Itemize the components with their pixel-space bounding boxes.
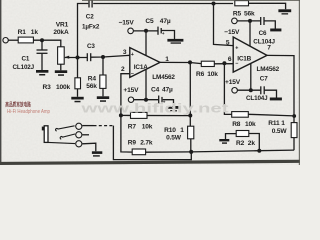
- svg-text:0.5W: 0.5W: [272, 128, 288, 135]
- junction C5: [144, 29, 148, 33]
- svg-text:C5: C5: [145, 18, 154, 25]
- svg-text:C6: C6: [259, 30, 267, 37]
- wire jack contact corner down: [113, 126, 191, 160]
- junction C7: [249, 88, 253, 92]
- ground under VR1: [55, 70, 67, 76]
- svg-text:VR1: VR1: [56, 21, 69, 28]
- junction rail/pin5: [212, 2, 216, 6]
- potentiometer VR1: [58, 47, 65, 64]
- svg-text:−15V: −15V: [119, 19, 135, 26]
- resistor R7: [131, 112, 148, 118]
- svg-text:2k: 2k: [248, 140, 256, 147]
- ground C4: [167, 106, 181, 112]
- capacitor C4 polarized: [159, 96, 162, 104]
- wire C7 to ground: [265, 90, 277, 97]
- junction C4: [144, 98, 148, 102]
- svg-text:R10: R10: [164, 127, 176, 134]
- svg-text:2: 2: [121, 66, 125, 73]
- jack contact circle 2: [76, 132, 82, 138]
- capacitor C2: [89, 0, 92, 8]
- capacitor C7: [261, 86, 264, 94]
- wire node A down to R3: [77, 58, 79, 78]
- wire IC1A V-: [145, 31, 147, 56]
- svg-text:C1: C1: [22, 56, 30, 63]
- svg-text:0.5W: 0.5W: [166, 134, 182, 141]
- svg-text:LM4562: LM4562: [257, 66, 280, 73]
- jack sleeve lead: [48, 142, 75, 143]
- wire R4 to ground: [102, 88, 104, 96]
- wire IC1B V-: [249, 21, 251, 46]
- jack contact leaf 1: [56, 126, 75, 131]
- wire IC1B output down right edge: [267, 55, 294, 122]
- wire VR1 wiper to node A: [65, 57, 87, 59]
- svg-text:−15V: −15V: [224, 29, 240, 36]
- junction pin2 bus: [119, 113, 123, 117]
- wire IC1A V+: [145, 69, 147, 99]
- headphone jack plug body: [42, 126, 48, 143]
- wire R7 bus: [121, 114, 191, 116]
- wire R10 bottom: [190, 139, 192, 152]
- svg-text:R6: R6: [196, 71, 205, 78]
- resistor R3: [75, 78, 81, 89]
- ground under R3: [71, 97, 83, 103]
- wire node X down to R4: [102, 57, 104, 75]
- svg-text:47µ: 47µ: [162, 87, 173, 94]
- -15V terminal A: [128, 28, 134, 34]
- scan border left: [0, 0, 1, 165]
- scan border right: [299, 0, 300, 165]
- junction R1/C1: [40, 38, 44, 42]
- wire rail down to IC1B pin 5: [214, 4, 234, 46]
- resistor R10: [188, 126, 194, 139]
- junction C6: [248, 19, 252, 23]
- svg-text:R1: R1: [18, 29, 27, 36]
- wire R2 right end down to bus: [249, 134, 259, 151]
- resistor R6: [201, 61, 214, 66]
- capacitor C3: [87, 53, 90, 61]
- ground C5: [167, 39, 183, 44]
- -15V terminal B: [232, 18, 238, 24]
- svg-text:56k: 56k: [86, 83, 97, 90]
- scan border top: [82, 0, 300, 1]
- op-amp IC1A: [130, 48, 160, 78]
- junction output B: [292, 114, 296, 118]
- wire output drop to R10: [189, 63, 191, 127]
- capacitor C1: [37, 50, 48, 53]
- ground C7: [270, 98, 282, 101]
- svg-text:R2: R2: [236, 140, 245, 147]
- svg-text:R5: R5: [233, 11, 242, 18]
- wire C1 to ground: [41, 54, 43, 70]
- svg-text:C7: C7: [260, 75, 268, 82]
- svg-text:R4: R4: [88, 75, 97, 82]
- resistor R4: [100, 75, 106, 88]
- svg-text:C3: C3: [87, 43, 95, 50]
- resistor R11: [291, 123, 297, 138]
- svg-text:56k: 56k: [244, 11, 255, 18]
- svg-text:1: 1: [180, 127, 184, 134]
- node X junction: [101, 55, 105, 59]
- wire C5 to ground: [162, 31, 175, 40]
- jack contact leaf 2: [60, 134, 75, 139]
- svg-text:LM4562: LM4562: [152, 74, 175, 81]
- jack contact circle 1: [76, 123, 82, 129]
- junction pin6: [222, 61, 226, 65]
- svg-text:www.hifidiy.net: www.hifidiy.net: [80, 100, 229, 115]
- capacitor C5 polarized: [158, 27, 161, 35]
- jack contact circle 3: [76, 141, 82, 147]
- ground jack: [92, 151, 102, 156]
- svg-text:10k: 10k: [245, 121, 256, 128]
- svg-text:高品质耳放电路: 高品质耳放电路: [5, 100, 31, 108]
- wire IC1A pin 2 left and down: [121, 74, 133, 152]
- resistor R1: [18, 37, 33, 43]
- resistor R8: [232, 112, 249, 118]
- wire C6 to ground: [264, 21, 275, 29]
- wire VR1 bottom to ground: [60, 64, 62, 70]
- wire node A up to C2: [78, 4, 89, 58]
- wire input to R1: [8, 39, 18, 41]
- wire IC1B V+: [250, 64, 252, 91]
- svg-text:6: 6: [228, 56, 232, 63]
- svg-text:47µ: 47µ: [160, 18, 171, 25]
- junction R10 bottom: [189, 150, 193, 154]
- wire jack sleeve to ground: [82, 143, 96, 151]
- svg-text:100k: 100k: [56, 84, 71, 91]
- resistor R2: [236, 131, 249, 137]
- +15V terminal B: [232, 88, 238, 94]
- wire R1 to VR1 top: [34, 40, 61, 47]
- resistor R9: [132, 149, 145, 155]
- wire bottom bus: [146, 150, 295, 152]
- svg-text:Hi-Fi Headphone Amp: Hi-Fi Headphone Amp: [7, 109, 50, 115]
- svg-text:10k: 10k: [207, 71, 218, 78]
- svg-text:+: +: [131, 52, 134, 58]
- ground under R4: [97, 96, 109, 102]
- wire jack tip contact to bus (dashed): [82, 125, 93, 127]
- svg-text:1µFx2: 1µFx2: [82, 24, 100, 31]
- svg-text:R7: R7: [128, 124, 137, 131]
- +15V terminal A: [128, 97, 133, 102]
- wire -15V B terminal to C6: [237, 20, 260, 22]
- wire R3 to ground: [77, 89, 79, 97]
- wire C3 to op-amp pin 3 with jog: [91, 55, 130, 57]
- ground under C1: [36, 70, 48, 76]
- svg-text:10k: 10k: [142, 124, 153, 131]
- svg-text:R11 1: R11 1: [268, 120, 285, 127]
- svg-text:1k: 1k: [31, 29, 39, 36]
- svg-text:3: 3: [123, 49, 127, 56]
- svg-text:CL102J: CL102J: [13, 64, 35, 71]
- svg-text:CL104J: CL104J: [253, 38, 275, 45]
- svg-text:20kA: 20kA: [53, 29, 69, 36]
- wire R11 bottom to bus: [293, 138, 295, 151]
- svg-text:IC1A: IC1A: [134, 64, 148, 71]
- wire C4 to ground: [163, 100, 174, 106]
- wire junction down to C1: [41, 40, 43, 49]
- wire R6 to IC1B pin 6: [214, 63, 233, 65]
- wiper arrow VR1: [64, 56, 69, 59]
- svg-text:−: −: [131, 71, 134, 77]
- svg-text:+: +: [235, 45, 238, 51]
- svg-text:C2: C2: [86, 14, 94, 21]
- svg-text:1: 1: [165, 56, 169, 63]
- svg-text:5: 5: [226, 40, 230, 47]
- wire R5 to ground top right: [249, 3, 286, 9]
- wire IC1A output to R6: [160, 62, 201, 63]
- wire +15V B terminal to C7: [237, 89, 260, 91]
- svg-text:+15V: +15V: [123, 87, 139, 94]
- scan border bottom: [0, 160, 300, 165]
- svg-text:R9: R9: [128, 140, 137, 147]
- input terminal: [3, 38, 8, 43]
- svg-text:CL104J: CL104J: [246, 95, 268, 102]
- wire top rail C2 to R5: [93, 3, 233, 5]
- side ground R2: [219, 139, 229, 144]
- wire jack ring contact stub: [82, 134, 89, 136]
- svg-text:+15V: +15V: [225, 79, 241, 86]
- op-amp IC1B: [233, 37, 267, 72]
- svg-text:2.7k: 2.7k: [140, 140, 153, 147]
- ground C6: [270, 29, 281, 32]
- junction R2 bus: [257, 149, 261, 153]
- wire -15V terminal to C5: [133, 30, 157, 32]
- svg-text:C4: C4: [151, 87, 160, 94]
- svg-text:7: 7: [267, 45, 271, 52]
- node A junction: [76, 56, 80, 60]
- svg-text:IC1B: IC1B: [237, 55, 251, 62]
- svg-text:R3: R3: [43, 84, 52, 91]
- resistor R5: [235, 1, 249, 6]
- wire R8 to output node: [249, 114, 295, 116]
- wire pin6 node down to R8: [224, 63, 231, 114]
- junction output A: [188, 60, 192, 64]
- wire +15V terminal to C4: [134, 99, 159, 101]
- svg-text:R8: R8: [232, 121, 241, 128]
- capacitor C6: [261, 17, 264, 25]
- svg-text:+: +: [162, 31, 165, 36]
- wire R2 left to side ground: [226, 134, 237, 139]
- junction bus output drop: [188, 114, 192, 118]
- ground top right: [278, 9, 291, 14]
